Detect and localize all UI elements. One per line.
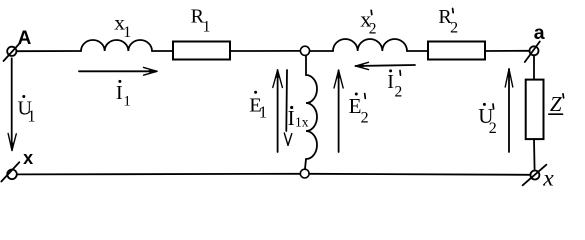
prime of U2 bbox=[492, 104, 495, 109]
terminal x bottom-left bbox=[1, 162, 19, 181]
svg-text:Z: Z bbox=[550, 92, 562, 116]
terminal A bbox=[4, 44, 20, 62]
resistor R1 bbox=[173, 42, 230, 60]
label R2' bbox=[438, 6, 458, 36]
svg-text:I: I bbox=[116, 82, 123, 104]
wire a to Z bbox=[533, 55, 535, 79]
current arrow I1 bbox=[79, 67, 158, 75]
svg-text:1: 1 bbox=[123, 94, 130, 110]
wire A to x1 bbox=[16, 50, 81, 52]
label x2' bbox=[360, 7, 376, 38]
label U1 bbox=[18, 95, 36, 126]
svg-text:2: 2 bbox=[361, 110, 369, 127]
label E2' bbox=[349, 93, 369, 127]
magnetizing inductor bbox=[305, 55, 317, 169]
bottom wire right bbox=[309, 174, 530, 175]
wire Z to terminal x bbox=[533, 139, 536, 171]
svg-text:1: 1 bbox=[123, 24, 131, 41]
voltage arrow U2' bbox=[505, 69, 513, 153]
inductor x2' bbox=[333, 39, 407, 51]
prime of R2 bbox=[452, 9, 455, 13]
wire R2 to terminal a bbox=[485, 50, 530, 52]
label R1 bbox=[191, 5, 211, 35]
bottom node bbox=[300, 169, 309, 178]
svg-text:1: 1 bbox=[259, 102, 267, 121]
emf arrow E2' bbox=[334, 70, 343, 152]
current arrow I2' bbox=[355, 62, 415, 69]
inductor x1 bbox=[81, 40, 152, 51]
label x1 bbox=[114, 10, 131, 41]
svg-text:x: x bbox=[23, 148, 33, 168]
svg-text:E: E bbox=[349, 94, 362, 118]
svg-text:2: 2 bbox=[489, 120, 497, 137]
svg-text:a: a bbox=[534, 22, 545, 44]
label Z' bbox=[550, 92, 562, 116]
label E1 bbox=[249, 91, 267, 122]
bottom wire left bbox=[17, 173, 300, 176]
terminal x bottom-right bbox=[523, 165, 547, 186]
svg-text:A: A bbox=[18, 28, 32, 49]
label U2' bbox=[478, 103, 497, 137]
load Z' bbox=[526, 80, 544, 140]
current arrow I1x bbox=[284, 70, 292, 145]
wire x2 to R2 bbox=[407, 50, 428, 52]
label I1x bbox=[288, 106, 309, 130]
prime of Z bbox=[562, 94, 565, 98]
emf arrow E1 bbox=[273, 70, 283, 153]
svg-text:1x: 1x bbox=[295, 115, 309, 130]
voltage arrow U1 bbox=[8, 58, 16, 151]
resistor R2' bbox=[428, 42, 485, 60]
wire x1 to R1 bbox=[152, 50, 173, 52]
prime of x2 bbox=[370, 10, 373, 14]
svg-text:2: 2 bbox=[369, 20, 377, 37]
top node bbox=[300, 46, 309, 55]
prime of I2 bbox=[399, 71, 402, 76]
wire R1 to top node bbox=[230, 50, 301, 52]
svg-text:x: x bbox=[542, 166, 554, 192]
svg-text:I: I bbox=[387, 71, 394, 93]
svg-text:I: I bbox=[288, 106, 295, 130]
wire node to x2 bbox=[310, 50, 333, 52]
svg-text:1: 1 bbox=[203, 18, 211, 35]
prime of E2 bbox=[364, 94, 367, 99]
svg-text:2: 2 bbox=[395, 83, 403, 100]
label I1 bbox=[116, 80, 131, 110]
svg-text:2: 2 bbox=[450, 19, 458, 36]
label I2' bbox=[387, 69, 402, 100]
svg-text:1: 1 bbox=[27, 107, 35, 126]
terminal a bbox=[525, 42, 540, 63]
